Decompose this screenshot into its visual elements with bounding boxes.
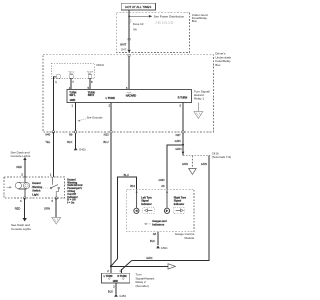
svg-text:Console Lights: Console Lights (11, 227, 31, 231)
wire L turn branch to indicator B16 (117, 177, 136, 259)
svg-text:GRN: GRN (175, 147, 181, 151)
svg-text:RED: RED (15, 207, 21, 211)
label See Dash and Console Lights top (11, 150, 31, 158)
wire fuse to relay pin 6 (128, 56, 130, 89)
svg-text:I = On: I = On (67, 202, 74, 205)
under-hood fuse/relay box (116, 12, 189, 52)
svg-text:GRN: GRN (146, 256, 152, 260)
component turn R relay in MICU (87, 70, 94, 78)
label Under-hood Fuse/Relay Box (192, 13, 208, 23)
svg-text:N40: N40 (45, 133, 50, 137)
component hazard oscillator symbol (127, 92, 132, 93)
wire dashed gauges arrow (144, 223, 151, 225)
wire MICU pin7 to relay pin4 (70, 78, 72, 89)
node continue arrow down (189, 169, 197, 175)
svg-text:(Sounder): (Sounder) (136, 284, 149, 288)
svg-text:R TURN: R TURN (178, 97, 188, 100)
connector C416 junction line (183, 155, 211, 157)
node junction L turn bottom (110, 265, 112, 267)
svg-text:3: 3 (113, 285, 115, 289)
node HOT AT ALL TIMES (121, 3, 155, 10)
label Fuse 10 9A (133, 22, 144, 32)
label Gauges and Indicators (152, 220, 167, 226)
wire left turn continue branch (111, 265, 168, 267)
svg-text:G401: G401 (79, 148, 86, 152)
node junction R turn (182, 144, 184, 146)
wire gauge ground A8 (157, 232, 159, 245)
relay U2 turn signal/hazard relay 2 (102, 273, 130, 283)
node arrow down to dash lights (23, 218, 27, 221)
svg-text:N9: N9 (69, 133, 73, 137)
ground chassis hazard switch (52, 218, 61, 225)
svg-text:RED: RED (16, 165, 22, 169)
svg-text:L TURN: L TURN (104, 275, 113, 278)
node internal contact right (123, 278, 125, 280)
wire R turn from relay pin3 (182, 102, 184, 155)
driver's under-dash fuse/relay box (43, 55, 214, 132)
ground G501 (156, 245, 168, 249)
svg-text:3: 3 (21, 173, 23, 177)
node connector circle pin 5 (55, 197, 57, 199)
svg-text:SW R: SW R (88, 94, 95, 97)
wire see power distribution branch (129, 15, 148, 17)
node continue arrow right (168, 264, 175, 269)
svg-text:2-20, 2-21, 2-22: 2-20, 2-21, 2-22 (156, 22, 174, 25)
svg-text:7: 7 (72, 80, 74, 84)
wire GRN from C416 to relay 2 (132, 156, 209, 261)
node connector N27 (182, 131, 184, 133)
svg-text:BLK: BLK (67, 140, 72, 144)
svg-text:1: 1 (55, 80, 57, 84)
lamp hazard switch light 1 (15, 182, 21, 188)
wire mechanical link dashed (31, 187, 49, 189)
wire N40 to switch pin 1 (52, 132, 54, 177)
wire relay 2 ground (115, 283, 117, 294)
wire dash lights to switch pin 3 (24, 160, 26, 178)
svg-text:4: 4 (20, 199, 22, 203)
svg-text:B16: B16 (130, 184, 135, 188)
wire MICU pin8 to relay pin5 (89, 78, 91, 89)
svg-text:2: 2 (109, 104, 111, 108)
node connector N23 (110, 131, 112, 133)
label Hazard Warning Switch/Front Passenger's Airbag Cut-Off Indicator (67, 178, 82, 204)
node connector circle pin 4 (24, 197, 26, 199)
svg-text:BLU: BLU (103, 140, 108, 144)
svg-text:G450: G450 (119, 294, 126, 298)
svg-text:GRN: GRN (201, 162, 207, 166)
icon right arrow indicator (173, 207, 185, 213)
pin tick B16 (136, 191, 138, 193)
svg-text:G501: G501 (161, 246, 168, 250)
svg-text:Module: Module (184, 236, 194, 240)
svg-text:WHT: WHT (120, 42, 126, 46)
icon illumination arrow (7, 186, 12, 188)
svg-text:9A: 9A (133, 28, 137, 32)
svg-text:HOT AT ALL TIMES: HOT AT ALL TIMES (125, 5, 151, 9)
svg-text:GRN: GRN (159, 178, 165, 182)
component hazard input in MICU (53, 75, 60, 79)
svg-text:Warning: Warning (32, 186, 42, 189)
node See Power Distribution arrow (149, 15, 152, 18)
wire RED to dash lights (24, 198, 26, 218)
svg-text:MICU: MICU (97, 63, 105, 67)
label TURN SW L (69, 92, 76, 98)
svg-text:1: 1 (50, 173, 52, 177)
svg-text:HAZARD: HAZARD (126, 95, 137, 98)
wire relay ground stub (197, 102, 199, 111)
svg-text:N27: N27 (176, 133, 181, 137)
svg-text:BLU: BLU (124, 173, 129, 177)
svg-text:Light: Light (32, 193, 38, 196)
ground chassis under relay 1 (194, 112, 203, 119)
node terminal arrow D47 (127, 50, 130, 53)
wire to relay 2 pin 2 (110, 266, 112, 273)
label C416 (Terminals 7-9) (212, 152, 231, 160)
svg-text:BLK: BLK (150, 239, 155, 243)
hazard warning switch box (4, 177, 65, 198)
svg-text:(Terminals 7-9): (Terminals 7-9) (212, 155, 231, 159)
wire GRN switch ground (55, 198, 57, 218)
svg-text:Switch: Switch (32, 190, 41, 193)
svg-text:L TURN: L TURN (106, 97, 115, 100)
node junction (128, 15, 130, 17)
label See Dash and Console Lights bottom (11, 223, 31, 231)
ground G401 (74, 147, 86, 151)
connector C3 on wire (128, 38, 130, 40)
svg-text:A8: A8 (153, 232, 157, 236)
svg-text:1: 1 (72, 104, 74, 108)
fuse Fuse 10 9A (128, 17, 131, 30)
svg-text:2: 2 (107, 269, 109, 273)
svg-text:R TURN: R TURN (118, 275, 127, 278)
svg-text:D47: D47 (121, 47, 127, 51)
svg-text:Relay 1: Relay 1 (194, 97, 205, 101)
wire MICU pin1 to hazard switch (52, 77, 54, 178)
gauge control module box (127, 189, 194, 232)
pin tick A6 (166, 191, 168, 193)
wire relay pin1 ground (75, 102, 77, 148)
wire dashed stub to right turn lights (191, 156, 193, 169)
lamp right turn signal indicator (164, 208, 169, 213)
relay U1 turn signal/hazard relay 1 (67, 89, 191, 102)
label Driver's Under-dash Fuse/Relay Box (215, 52, 231, 67)
svg-text:Indicators: Indicators (152, 223, 165, 226)
svg-text:8: 8 (91, 80, 93, 84)
svg-text:GRN: GRN (175, 139, 181, 143)
svg-text:Indicator: Indicator (174, 203, 185, 206)
wire switch lamp feed (18, 177, 26, 198)
svg-text:5: 5 (52, 199, 54, 203)
svg-text:GRN: GRN (44, 207, 50, 211)
wire branch to indicator A6 (167, 145, 183, 189)
label Gauge Control Module (175, 232, 195, 240)
wire L turn from relay pin2 (110, 102, 112, 266)
svg-text:Box: Box (192, 19, 198, 23)
svg-text:1: 1 (119, 269, 121, 273)
svg-text:Hazard: Hazard (32, 182, 41, 185)
node terminal into C416 (182, 152, 185, 155)
svg-text:SW L: SW L (69, 94, 76, 97)
wire diagonal join (111, 259, 117, 266)
label Hazard Warning Switch Light (32, 182, 42, 196)
node arrow up to dash lights (23, 157, 26, 160)
label Left Turn Signal Indicator (141, 196, 152, 206)
wire battery feed (128, 10, 130, 50)
svg-text:See Grounds: See Grounds (87, 116, 103, 120)
ground G503 (114, 294, 126, 298)
svg-text:A6: A6 (161, 184, 165, 188)
svg-text:GRN: GRN (182, 162, 188, 166)
wire to right indicator lamp (166, 189, 168, 208)
MICU box (51, 63, 95, 78)
wire to left indicator lamp (136, 189, 138, 208)
svg-text:YEL: YEL (45, 140, 51, 144)
lamp hazard switch light 2 (24, 182, 30, 188)
icon left arrow indicator (143, 207, 155, 213)
svg-text:GND: GND (113, 280, 119, 283)
svg-text:Box: Box (215, 63, 221, 67)
component turn L relay in MICU (68, 70, 75, 78)
wire dashed see-grounds arrow (77, 119, 86, 122)
label TURN SW R (88, 92, 95, 98)
svg-text:Indicator: Indicator (141, 203, 152, 206)
switch hazard contact (50, 177, 59, 198)
svg-text:3: 3 (179, 104, 181, 108)
label Right Turn Signal Indicator (174, 196, 187, 206)
svg-text:Console Lights: Console Lights (11, 154, 31, 158)
svg-text:See Power Distribution: See Power Distribution (154, 15, 185, 19)
node connector N40 (52, 131, 54, 133)
lamp left turn signal indicator (134, 208, 139, 213)
node connector circle at box entry (128, 55, 130, 57)
node connector N9 (74, 131, 76, 133)
label Turn Signal/Hazard Relay 2 (Sounder) (136, 273, 155, 288)
svg-text:GND: GND (70, 99, 76, 102)
svg-text:N23: N23 (104, 133, 109, 137)
svg-text:BLK: BLK (108, 290, 113, 294)
node internal contact left (109, 278, 111, 280)
label Turn Signal/Hazard Relay 1 (194, 89, 210, 100)
svg-text:Fuse 10: Fuse 10 (133, 22, 144, 26)
